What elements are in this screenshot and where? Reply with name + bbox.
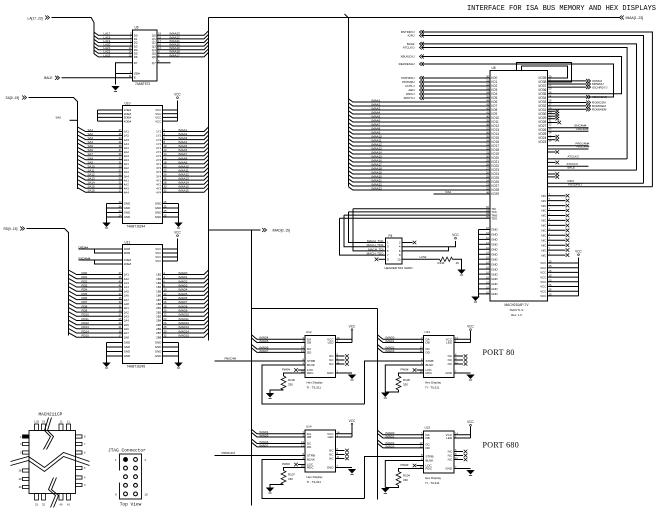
- svg-text:IMAA[1..23]: IMAA[1..23]: [626, 16, 644, 20]
- wire D7/OE ground tie: [116, 63, 133, 85]
- svg-text:GND: GND: [491, 252, 497, 256]
- wire U12 BLNK loop: [262, 365, 365, 404]
- svg-text:1,20: 1,20: [34, 420, 40, 424]
- svg-text:RA2: RA2: [446, 190, 452, 194]
- svg-text:GND: GND: [155, 202, 161, 206]
- nc marks U12: [336, 355, 345, 357]
- svg-text:IMAD3: IMAD3: [386, 349, 395, 353]
- svg-text:GND: GND: [124, 345, 130, 349]
- svg-text:R105: R105: [403, 378, 410, 382]
- svg-text:SA[0..19]: SA[0..19]: [6, 96, 20, 100]
- svg-text:U10: U10: [125, 102, 131, 106]
- svg-text:PW0#: PW0#: [401, 368, 409, 372]
- svg-text:D7: D7: [134, 61, 138, 65]
- svg-text:BALE: BALE: [44, 76, 53, 80]
- svg-text:GND: GND: [491, 282, 497, 286]
- svg-text:TI - TIL311: TI - TIL311: [307, 480, 322, 484]
- svg-text:N/C: N/C: [541, 238, 546, 242]
- PLCC pins right: [76, 435, 83, 438]
- svg-text:GND: GND: [155, 206, 161, 210]
- svg-text:U14: U14: [306, 425, 312, 429]
- svg-text:Hex Display: Hex Display: [425, 381, 442, 385]
- wire U12 vcc/led: [336, 338, 353, 340]
- svg-text:VCC: VCC: [540, 266, 546, 270]
- ground U12: [348, 375, 356, 380]
- svg-text:JTAG Connector: JTAG Connector: [108, 448, 146, 454]
- jtag key gap left edge: [119, 471, 121, 483]
- svg-text:XBUNCAJ: XBUNCAJ: [400, 55, 415, 59]
- wire P80C4M: [548, 148, 589, 150]
- svg-text:VCC: VCC: [540, 275, 546, 279]
- svg-text:TI - TIL311: TI - TIL311: [425, 385, 440, 389]
- wire IMAA bus vertical x208: [208, 18, 210, 341]
- svg-text:ROMWEM: ROMWEM: [592, 108, 607, 112]
- wire U12 data fan: [252, 335, 306, 340]
- svg-text:LED: LED: [446, 341, 453, 345]
- wire U15 data fan: [378, 430, 424, 435]
- svg-text:GND: GND: [124, 350, 130, 354]
- nc stubs low: [548, 173, 556, 175]
- ground R107 U14: [266, 488, 274, 493]
- svg-text:ISA/CTL.S: ISA/CTL.S: [510, 308, 524, 312]
- svg-text:330: 330: [403, 383, 408, 387]
- resistor R134 1K: [440, 257, 453, 261]
- svg-text:VCC: VCC: [174, 230, 181, 234]
- wire U10 OE ties: [98, 109, 123, 111]
- nc stubs upper group: [548, 110, 556, 112]
- svg-text:VCC: VCC: [349, 324, 356, 328]
- svg-text:2A8: 2A8: [124, 335, 130, 339]
- svg-text:TI - TIL311: TI - TIL311: [425, 481, 440, 485]
- svg-text:GND: GND: [124, 215, 130, 219]
- svg-text:GND: GND: [445, 467, 453, 471]
- svg-text:PW0#: PW0#: [401, 463, 409, 467]
- wire DRC4M: [548, 130, 589, 132]
- svg-text:N/C: N/C: [541, 224, 546, 228]
- svg-text:VCC: VCC: [540, 294, 546, 298]
- svg-text:U12: U12: [306, 330, 312, 334]
- hex display U12 TIL311: [305, 336, 336, 378]
- svg-text:RD15: RD15: [82, 334, 90, 338]
- resistor R107 330 U14: [284, 468, 306, 471]
- svg-text:D6: D6: [134, 55, 138, 59]
- svg-text:R107: R107: [288, 473, 295, 477]
- svg-text:330: 330: [403, 478, 408, 482]
- svg-text:VCC: VCC: [540, 280, 546, 284]
- wire RA2: [434, 193, 491, 195]
- wire display bus branch y308: [252, 308, 378, 310]
- wire ATCLKO to loop: [548, 158, 628, 160]
- jtag pins row 4: [124, 483, 128, 487]
- svg-text:DB: DB: [307, 435, 311, 439]
- resistor R106 330 U12: [284, 373, 306, 376]
- svg-text:IMAD7: IMAD7: [260, 443, 269, 447]
- svg-text:GND: GND: [155, 354, 161, 358]
- svg-text:IMAD5: IMAD5: [260, 433, 269, 437]
- wire U15 BLNK to gnd: [385, 461, 423, 488]
- svg-text:GND: GND: [155, 215, 161, 219]
- wire U6 outputs to bus: [157, 31, 209, 36]
- jtag pins row 5: [124, 492, 128, 496]
- hex display U14 TIL311: [305, 430, 336, 472]
- svg-text:GND: GND: [491, 238, 497, 242]
- svg-text:GND: GND: [445, 371, 453, 375]
- svg-text:RD[0..15]: RD[0..15]: [4, 227, 18, 231]
- svg-text:BLNK: BLNK: [307, 363, 315, 367]
- wire BALE to E: [62, 77, 133, 79]
- svg-text:GND: GND: [491, 292, 497, 296]
- svg-text:TI - TIL311: TI - TIL311: [307, 385, 322, 389]
- svg-text:N/C: N/C: [541, 219, 546, 223]
- svg-text:DB: DB: [426, 341, 430, 345]
- resistor R105 330 U13: [399, 373, 424, 376]
- PLCC pin1 black: [23, 435, 30, 438]
- wire display bus x377: [377, 309, 379, 500]
- nc LOC U14: [298, 464, 305, 466]
- wire pin10 LOW resistor: [402, 258, 440, 260]
- output chevron XBUNCAO: [588, 95, 590, 99]
- ground R106 U12: [266, 393, 274, 398]
- wire LA bus: [52, 18, 95, 55]
- wire U15 gnd: [454, 468, 471, 470]
- wire pins4,6 to VCC: [402, 241, 456, 247]
- svg-text:E: E: [134, 76, 136, 80]
- ground U8: [471, 297, 479, 302]
- wire U13 data fan: [378, 335, 424, 340]
- wire IMAA bus top horizontal: [209, 17, 620, 19]
- wire U13 vcc/led: [454, 338, 471, 340]
- svg-text:R104: R104: [403, 474, 410, 478]
- svg-text:GND: GND: [155, 345, 161, 349]
- nc marks U13: [454, 355, 463, 357]
- PLCC pins top: [35, 424, 39, 431]
- svg-text:BLNK: BLNK: [426, 363, 434, 367]
- PLCC break zigzag top: [44, 418, 51, 450]
- svg-text:HEADER 5X2 SHRD: HEADER 5X2 SHRD: [384, 266, 413, 270]
- wire RD bus: [27, 229, 69, 336]
- svg-text:1K: 1K: [456, 261, 460, 265]
- wire LA fan into U6: [94, 32, 133, 35]
- svg-text:SA16: SA16: [88, 189, 95, 193]
- svg-text:P4: P4: [389, 234, 393, 238]
- buffer U10 74ABT16244: [123, 106, 163, 224]
- svg-text:GND: GND: [491, 233, 497, 237]
- svg-text:VCC: VCC: [467, 324, 474, 328]
- svg-text:330: 330: [288, 477, 293, 481]
- svg-text:PORT 80: PORT 80: [483, 348, 515, 357]
- svg-text:GND: GND: [124, 211, 130, 215]
- svg-text:TDO: TDO: [491, 217, 498, 221]
- svg-text:MACH210AP-7V: MACH210AP-7V: [505, 303, 530, 307]
- svg-text:U8: U8: [492, 66, 496, 70]
- svg-text:U6: U6: [135, 26, 139, 30]
- svg-text:VCC: VCC: [540, 289, 546, 293]
- svg-text:IMAD5: IMAD5: [260, 339, 269, 343]
- svg-text:Hex Display: Hex Display: [307, 381, 324, 385]
- svg-text:VCC: VCC: [349, 419, 356, 423]
- svg-text:10: 10: [145, 493, 149, 497]
- svg-text:PW0#: PW0#: [282, 368, 290, 372]
- PLD U8 MACH210: [490, 71, 548, 302]
- wire U13 BLNK to gnd: [385, 365, 423, 392]
- wire U14 vcc/led: [336, 433, 353, 435]
- svg-text:IOCHRDYJ: IOCHRDYJ: [592, 85, 608, 89]
- svg-text:LED: LED: [446, 436, 453, 440]
- svg-text:PW0#: PW0#: [282, 462, 290, 466]
- svg-text:VCC: VCC: [540, 285, 546, 289]
- svg-text:DB: DB: [426, 436, 430, 440]
- svg-text:IMAD15: IMAD15: [179, 334, 190, 338]
- svg-text:GND: GND: [327, 371, 335, 375]
- nc LOC U15: [417, 465, 424, 467]
- svg-text:74ABT16245: 74ABT16245: [127, 365, 146, 369]
- PLCC break zigzag bottom: [49, 478, 56, 508]
- svg-text:GND: GND: [491, 243, 497, 247]
- resistor R104 330 U15: [399, 469, 424, 472]
- svg-text:GND: GND: [491, 257, 497, 261]
- header P4: [386, 238, 403, 264]
- connector IMAD[0..15]: [209, 229, 261, 231]
- wire U14 data fan: [252, 429, 306, 434]
- svg-text:LA[17..23]: LA[17..23]: [28, 16, 43, 20]
- svg-text:GND: GND: [491, 277, 497, 281]
- output chevrons IOWMJ/MRWMJ/IOCHRDYJ: [548, 80, 587, 82]
- wire RD fan into U11: [69, 270, 123, 275]
- svg-text:4OE#: 4OE#: [124, 119, 132, 123]
- svg-text:RDC: RDC: [307, 371, 314, 375]
- ground U15: [466, 470, 474, 475]
- svg-text:2DIR: 2DIR: [124, 251, 131, 255]
- svg-text:IMAD1: IMAD1: [386, 434, 395, 438]
- svg-text:LA23: LA23: [104, 53, 111, 57]
- wire IORJ to loop: [548, 182, 644, 184]
- wire upper-right small loops: [522, 66, 568, 78]
- svg-text:2OE#: 2OE#: [124, 262, 132, 266]
- svg-text:GND: GND: [491, 228, 497, 232]
- svg-text:BALE: BALE: [568, 166, 575, 170]
- svg-text:4Y4: 4Y4: [156, 190, 162, 194]
- nc pin2: [402, 242, 413, 244]
- nc marks U15: [454, 451, 463, 453]
- svg-text:GND: GND: [327, 466, 335, 470]
- ground U10 right: [174, 223, 182, 228]
- ground R105 U13: [381, 393, 389, 398]
- svg-text:74ABT16244: 74ABT16244: [127, 225, 146, 229]
- wire P80C4M to U12 STRB: [215, 360, 306, 362]
- svg-text:GND: GND: [124, 354, 130, 358]
- wire U11 gnd left: [107, 342, 123, 344]
- nc LOC U13: [417, 369, 424, 371]
- svg-text:DRC4M#: DRC4M#: [577, 127, 589, 131]
- wire IMAA bus drop x348 to U8: [345, 14, 349, 187]
- wire U15 vcc/led: [454, 434, 471, 436]
- svg-text:N/C: N/C: [541, 248, 546, 252]
- wire IMAA fan into U8: [349, 99, 491, 102]
- svg-text:GND: GND: [124, 341, 130, 345]
- nc marks U14: [336, 450, 345, 452]
- ground U11 left: [102, 363, 110, 368]
- svg-text:MACH211CP: MACH211CP: [39, 413, 63, 418]
- svg-text:IORJ: IORJ: [408, 34, 415, 38]
- svg-text:P80C4M: P80C4M: [225, 356, 237, 360]
- svg-text:VCC: VCC: [452, 233, 459, 237]
- wire SA0 stub: [70, 119, 78, 121]
- wire Q7 stub: [157, 62, 171, 64]
- nc LOC U12: [298, 369, 305, 371]
- svg-text:RDC: RDC: [307, 466, 314, 470]
- svg-text:VCC: VCC: [540, 261, 546, 265]
- svg-text:XBUNCAO: XBUNCAO: [592, 95, 608, 99]
- hex display U15 TIL311: [424, 431, 455, 473]
- svg-text:R134: R134: [438, 261, 445, 265]
- svg-text:GND: GND: [155, 211, 161, 215]
- nc pin9: [379, 258, 386, 260]
- wire U10 gnd left: [107, 203, 123, 205]
- vcc rail U10: [163, 109, 178, 111]
- svg-text:GND: GND: [491, 262, 497, 266]
- svg-text:VCC: VCC: [155, 259, 161, 263]
- svg-text:LED: LED: [328, 341, 335, 345]
- ground U11 right: [174, 363, 182, 368]
- svg-text:BLNK: BLNK: [307, 458, 315, 462]
- wire SA fan into U10: [78, 127, 123, 132]
- svg-text:U15: U15: [425, 426, 431, 430]
- connector IMAA[1..23]: [620, 16, 622, 20]
- wire U11 gnd right: [163, 342, 179, 344]
- svg-text:Top View: Top View: [120, 502, 142, 508]
- svg-text:GND: GND: [491, 248, 497, 252]
- jtag pins row 1: [124, 458, 128, 462]
- svg-text:2B8: 2B8: [156, 335, 162, 339]
- svg-text:RSTDRVJ: RSTDRVJ: [569, 182, 583, 186]
- wire SA bus: [29, 98, 78, 190]
- svg-text:GND: GND: [124, 202, 130, 206]
- output chevrons ROMCSM/ROMOEM/ROMWEM: [548, 102, 587, 104]
- wire strb chain bottom: [365, 457, 424, 499]
- svg-text:R106: R106: [288, 378, 295, 382]
- vcc rail U11: [163, 248, 178, 250]
- ground U14: [348, 469, 356, 474]
- svg-text:N/C: N/C: [541, 234, 546, 238]
- svg-text:Rev. 1.0: Rev. 1.0: [511, 313, 522, 317]
- svg-text:IMAD3: IMAD3: [386, 444, 395, 448]
- svg-text:330: 330: [288, 383, 293, 387]
- svg-text:IMAD7: IMAD7: [260, 349, 269, 353]
- svg-text:N/C: N/C: [541, 194, 546, 198]
- svg-text:VCC: VCC: [467, 420, 474, 424]
- svg-text:LOW: LOW: [420, 255, 427, 259]
- svg-text:Hex Display: Hex Display: [425, 476, 442, 480]
- svg-text:BLNK: BLNK: [426, 459, 434, 463]
- svg-text:U11: U11: [125, 241, 131, 245]
- svg-text:IMAD1: IMAD1: [386, 339, 395, 343]
- svg-text:ATCLKO: ATCLKO: [568, 155, 580, 159]
- svg-text:GND: GND: [491, 267, 497, 271]
- svg-text:74ABT573: 74ABT573: [135, 82, 150, 86]
- svg-text:U13: U13: [425, 330, 431, 334]
- PLCC pins left: [23, 442, 30, 445]
- svg-text:N/C: N/C: [541, 204, 546, 208]
- wire P680C4M to U14 STRB: [215, 455, 306, 457]
- svg-text:IMAD[0..15]: IMAD[0..15]: [273, 229, 290, 233]
- svg-text:VCC: VCC: [155, 119, 161, 123]
- nc stubs mid: [548, 136, 556, 138]
- ground R104 U15: [381, 488, 389, 493]
- svg-text:Q7: Q7: [152, 61, 156, 65]
- svg-text:REFRESHJ: REFRESHJ: [399, 62, 415, 66]
- wire U11 outputs to bus: [163, 270, 209, 275]
- svg-text:VCC: VCC: [540, 271, 546, 275]
- svg-text:I/O29: I/O29: [491, 192, 499, 196]
- wire U13 gnd: [454, 372, 471, 374]
- jtag pins row 2: [124, 466, 128, 470]
- wire U14 gnd: [336, 467, 353, 469]
- svg-text:INTERFACE FOR ISA BUS MEMORY A: INTERFACE FOR ISA BUS MEMORY AND HEX DIS…: [467, 5, 656, 13]
- nc stub: [548, 151, 556, 153]
- svg-text:N/C: N/C: [541, 243, 546, 247]
- svg-text:GND: GND: [155, 341, 161, 345]
- wire ATCLKO 2: [548, 165, 589, 167]
- svg-text:P680C4M: P680C4M: [222, 451, 236, 455]
- svg-text:10: 10: [397, 257, 401, 261]
- svg-text:LED: LED: [328, 435, 335, 439]
- wire U14 BLNK loop: [262, 460, 365, 499]
- svg-text:P80C4M#: P80C4M#: [577, 145, 590, 149]
- svg-text:N/C: N/C: [541, 209, 546, 213]
- wire RSTDRVJ to loop: [548, 186, 653, 188]
- wire U10 outputs to bus: [163, 127, 209, 132]
- svg-text:I/O23: I/O23: [539, 140, 547, 144]
- svg-text:ATCLKO: ATCLKO: [403, 46, 415, 50]
- ground U6: [111, 86, 119, 91]
- wire U12 gnd: [336, 372, 353, 374]
- svg-text:GND: GND: [491, 287, 497, 291]
- wire PAGC4M: [548, 145, 589, 147]
- wire ENC4M: [548, 127, 589, 129]
- svg-text:SA0: SA0: [56, 116, 62, 120]
- svg-text:N/C: N/C: [541, 253, 546, 257]
- svg-text:IMAA17: IMAA17: [170, 53, 181, 57]
- svg-text:PORT 680: PORT 680: [483, 441, 520, 450]
- svg-text:VCC: VCC: [575, 249, 582, 253]
- latch U6 74ABT573: [133, 30, 158, 81]
- svg-text:Q6: Q6: [152, 55, 156, 59]
- svg-text:DB: DB: [307, 341, 311, 345]
- wire display bus x251: [251, 230, 253, 506]
- ground U10 left: [102, 223, 110, 228]
- PLCC break zigzag middle: [11, 453, 90, 468]
- wire strb chain top: [365, 361, 424, 404]
- svg-text:4A4: 4A4: [124, 190, 130, 194]
- wire BALE to loop: [548, 169, 637, 171]
- svg-text:GND: GND: [155, 350, 161, 354]
- ground U13: [466, 375, 474, 380]
- PLCC pins bottom: [35, 494, 39, 501]
- wire U10 gnd right: [163, 203, 179, 205]
- svg-text:VCC: VCC: [174, 92, 181, 96]
- svg-text:GND: GND: [124, 206, 130, 210]
- svg-text:N/C: N/C: [541, 214, 546, 218]
- svg-text:Hex Display: Hex Display: [307, 475, 324, 479]
- svg-text:N/C: N/C: [541, 199, 546, 203]
- jtag pins row 3: [124, 475, 128, 479]
- svg-text:GND: GND: [491, 272, 497, 276]
- svg-text:IMAA23: IMAA23: [372, 187, 383, 191]
- svg-text:N/C: N/C: [541, 229, 546, 233]
- svg-text:IMAA16: IMAA16: [179, 189, 190, 193]
- ground R134: [457, 270, 465, 275]
- svg-text:MWTCJ: MWTCJ: [404, 96, 415, 100]
